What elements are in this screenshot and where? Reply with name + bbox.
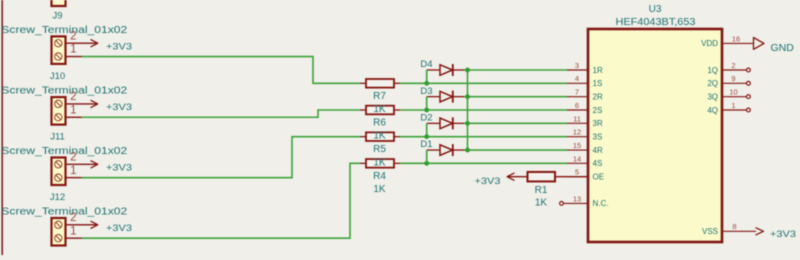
+3V3 power label arrow at J10 pin 2	[91, 100, 98, 107]
wire resistor R5 to IC S pin	[400, 136, 567, 138]
J10 pin 1	[66, 116, 82, 118]
connector J11 body	[52, 158, 66, 186]
svg-text:4S: 4S	[593, 159, 603, 168]
wire J10 pin1 to resistor R6	[82, 110, 361, 117]
wire resistor R7 to IC S pin	[400, 82, 567, 84]
J12 screw symbol pin 1	[55, 235, 62, 242]
wire D2 anode tap down	[426, 123, 428, 136]
diode D4	[427, 69, 440, 71]
wire resistor R4 to IC S pin	[400, 162, 567, 164]
wire cathode bus vertical	[467, 70, 469, 150]
svg-text:D1: D1	[420, 139, 432, 150]
svg-text:1K: 1K	[373, 184, 386, 195]
svg-text:+3V3: +3V3	[770, 229, 796, 240]
U3 pin 10 (3Q)	[722, 96, 747, 98]
diode D2	[427, 122, 440, 124]
U3 pin 13 (N.C.)	[564, 202, 589, 204]
svg-text:6: 6	[575, 101, 579, 110]
resistor R5 body	[360, 136, 366, 138]
svg-text:VSS: VSS	[702, 227, 718, 236]
J10 screw symbol pin 2	[55, 100, 62, 107]
svg-text:R7: R7	[373, 91, 386, 102]
wire D3 anode tap down	[426, 97, 428, 110]
svg-text:Screw_Terminal_01x02: Screw_Terminal_01x02	[1, 146, 128, 157]
svg-text:VDD: VDD	[701, 39, 718, 48]
svg-text:1: 1	[70, 104, 76, 116]
svg-text:3: 3	[575, 61, 579, 70]
svg-text:1R: 1R	[593, 66, 603, 75]
svg-text:+3V3: +3V3	[106, 102, 132, 113]
U3 pin 16 (VDD)	[722, 42, 754, 44]
wire J11 pin1 to resistor R5	[82, 137, 361, 178]
connector J8 (partially cut off at top edge)	[52, 0, 66, 6]
U3 pin 11 (3R)	[567, 122, 588, 124]
svg-text:OE: OE	[593, 173, 605, 182]
svg-text:+3V3: +3V3	[475, 176, 501, 187]
svg-text:1Q: 1Q	[707, 66, 718, 75]
wire D4 anode tap down	[426, 70, 428, 83]
junction dot on cathode bus at D4 row	[465, 68, 470, 73]
svg-text:Screw_Terminal_01x02: Screw_Terminal_01x02	[1, 25, 128, 36]
U3 pin 1 (4Q)	[722, 109, 747, 111]
U3 pin 2 unconnected end circle	[747, 68, 751, 72]
svg-text:Screw_Terminal_01x02: Screw_Terminal_01x02	[1, 86, 128, 97]
svg-text:4Q: 4Q	[707, 106, 718, 115]
svg-text:D4: D4	[420, 59, 432, 70]
svg-text:2: 2	[70, 212, 76, 224]
svg-text:+3V3: +3V3	[106, 163, 132, 174]
svg-text:2: 2	[70, 91, 76, 103]
svg-text:14: 14	[573, 154, 581, 163]
svg-text:HEF4043BT,653: HEF4043BT,653	[616, 17, 696, 28]
svg-text:J10: J10	[50, 71, 65, 82]
J9 pin 1	[66, 56, 82, 58]
wire D1 anode tap down	[426, 150, 428, 163]
U3 pin 13 unconnected end circle	[560, 202, 564, 206]
junction dot on cathode bus at D2 row	[465, 121, 470, 126]
svg-text:2R: 2R	[593, 92, 603, 101]
J11 screw symbol pin 2	[55, 161, 62, 168]
U3 pin 9 (2Q)	[722, 82, 747, 84]
U3 pin 4 (1S)	[567, 82, 588, 84]
svg-text:+3V3: +3V3	[106, 42, 132, 53]
svg-text:R5: R5	[373, 144, 386, 155]
junction dot at D3 anode tap	[424, 108, 429, 113]
U3 pin 2 (1Q)	[722, 69, 747, 71]
svg-text:J11: J11	[50, 132, 65, 143]
svg-text:3R: 3R	[593, 119, 603, 128]
svg-text:R1: R1	[535, 185, 548, 196]
wire D3 cathode to IC R pin	[464, 96, 567, 98]
connector J12 body	[52, 218, 66, 246]
J9 screw symbol pin 1	[55, 53, 62, 60]
resistor R4 body	[360, 162, 366, 164]
svg-text:U3: U3	[649, 4, 662, 15]
svg-text:1: 1	[731, 101, 735, 110]
svg-text:7: 7	[575, 88, 579, 97]
J10 pin 2	[66, 103, 98, 105]
junction dot at D1 anode tap	[424, 161, 429, 166]
svg-text:5: 5	[575, 168, 579, 177]
svg-text:GND: GND	[771, 42, 795, 54]
U3 pin 15 (4R)	[567, 149, 588, 151]
J11 pin 2	[66, 163, 98, 165]
resistor R1 body	[507, 176, 528, 178]
svg-text:8: 8	[732, 222, 736, 231]
wire J9 pin1 to resistor R7	[82, 57, 361, 84]
svg-text:1: 1	[70, 225, 76, 237]
wire resistor R6 to IC S pin	[400, 109, 567, 111]
+3V3 power label arrow at J11 pin 2	[91, 161, 98, 168]
J10 screw symbol pin 1	[55, 114, 62, 121]
U3 pin 3 (1R)	[567, 69, 588, 71]
IC U3 body	[588, 29, 722, 242]
+3V3 power label arrow at VSS	[756, 228, 764, 235]
svg-text:1: 1	[70, 44, 76, 56]
J12 pin 2	[66, 224, 98, 226]
svg-text:4: 4	[575, 74, 579, 83]
U3 pin 1 unconnected end circle	[747, 108, 751, 112]
svg-text:1K: 1K	[373, 157, 386, 168]
svg-text:1K: 1K	[373, 104, 386, 115]
svg-text:2Q: 2Q	[707, 79, 718, 88]
svg-text:Screw_Terminal_01x02: Screw_Terminal_01x02	[1, 206, 128, 217]
GND power label triangle	[754, 38, 765, 50]
svg-text:1K: 1K	[373, 131, 386, 142]
+3V3 power label arrow at J12 pin 2	[91, 221, 98, 228]
J9 pin 2	[66, 42, 98, 44]
J12 pin 1	[66, 237, 82, 239]
svg-text:2: 2	[70, 30, 76, 42]
svg-text:2: 2	[731, 61, 735, 70]
junction dot on cathode bus at D3 row	[465, 94, 470, 99]
svg-text:N.C.: N.C.	[593, 199, 609, 208]
svg-text:15: 15	[573, 141, 581, 150]
U3 pin 7 (2R)	[567, 96, 588, 98]
J9 screw symbol pin 2	[55, 40, 62, 47]
J12 screw symbol pin 2	[55, 221, 62, 228]
resistor R7 body	[360, 82, 366, 84]
wire D4 cathode to IC R pin	[464, 69, 567, 71]
svg-text:D2: D2	[420, 112, 432, 123]
J11 screw symbol pin 1	[55, 174, 62, 181]
svg-text:16: 16	[732, 34, 740, 43]
junction dot on cathode bus at D1 row	[465, 148, 470, 153]
U3 pin 12 (3S)	[567, 136, 588, 138]
svg-text:3S: 3S	[593, 132, 603, 141]
svg-text:9: 9	[731, 74, 735, 83]
svg-text:10: 10	[729, 88, 737, 97]
svg-text:1K: 1K	[535, 197, 548, 208]
svg-text:D3: D3	[420, 86, 432, 97]
svg-text:1: 1	[70, 165, 76, 177]
+3V3 power label arrow at J9 pin 2	[91, 40, 98, 47]
svg-text:11: 11	[573, 114, 581, 123]
diode D1	[427, 149, 440, 151]
svg-text:13: 13	[573, 194, 581, 203]
svg-text:J9: J9	[52, 10, 62, 21]
connector J10 body	[52, 97, 66, 125]
U3 pin 9 unconnected end circle	[747, 81, 751, 85]
U3 pin 10 unconnected end circle	[747, 95, 751, 99]
svg-text:3Q: 3Q	[707, 92, 718, 101]
svg-text:2S: 2S	[593, 106, 603, 115]
svg-text:12: 12	[573, 128, 581, 137]
U3 pin 5 (OE)	[567, 176, 588, 178]
U3 pin 8 (VSS)	[722, 230, 756, 232]
wire J12 pin1 to resistor R4	[82, 163, 361, 238]
sheet border left edge	[1, 0, 3, 255]
svg-text:R6: R6	[373, 118, 386, 129]
wire D1 cathode to IC R pin	[464, 149, 567, 151]
svg-text:4R: 4R	[593, 146, 603, 155]
diode D3	[427, 96, 440, 98]
svg-text:+3V3: +3V3	[106, 223, 132, 234]
resistor R6 body	[360, 109, 366, 111]
svg-text:J12: J12	[50, 192, 65, 203]
J11 pin 1	[66, 177, 82, 179]
+3V3 power label arrow at R1	[507, 173, 514, 180]
connector J9 body	[52, 36, 66, 64]
svg-text:R4: R4	[373, 171, 386, 182]
U3 pin 14 (4S)	[567, 162, 588, 164]
svg-text:2: 2	[70, 151, 76, 163]
junction dot at D4 anode tap	[424, 81, 429, 86]
svg-text:1S: 1S	[593, 79, 603, 88]
U3 pin 6 (2S)	[567, 109, 588, 111]
junction dot at D2 anode tap	[424, 134, 429, 139]
wire D2 cathode to IC R pin	[464, 122, 567, 124]
